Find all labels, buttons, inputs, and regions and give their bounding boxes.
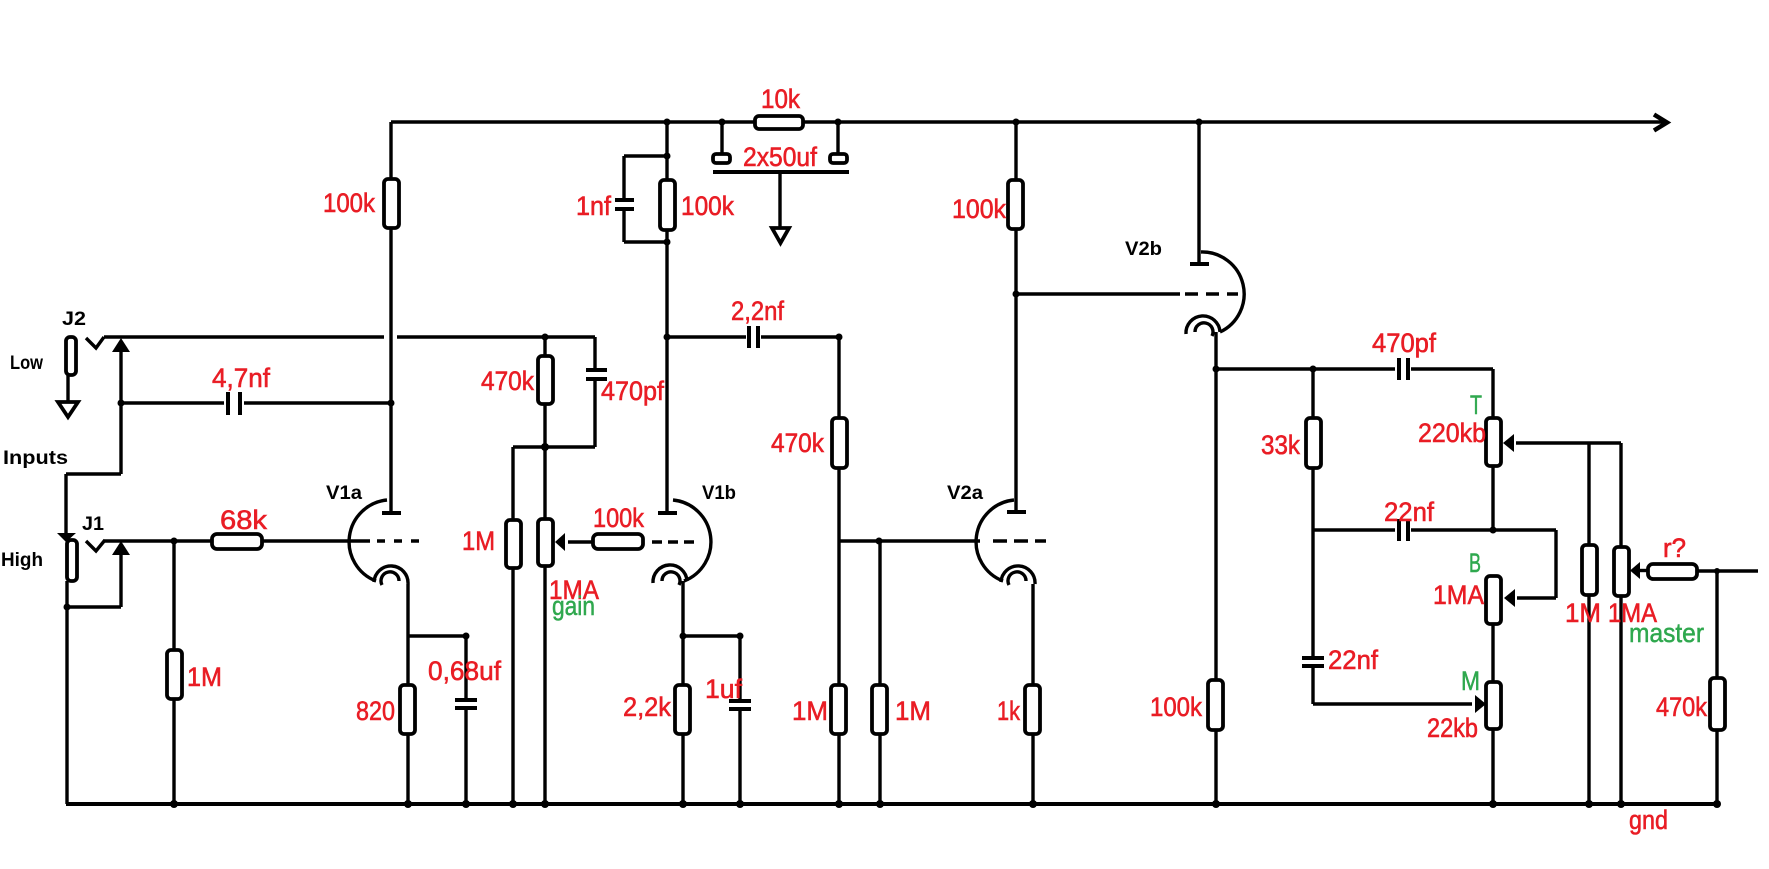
svg-text:V1a: V1a — [326, 483, 362, 504]
capacitor 470pf (treble) — [1313, 328, 1493, 418]
svg-text:master: master — [1629, 618, 1704, 648]
resistor r? (output series) — [1648, 533, 1758, 579]
resistor 100k (V1b grid stopper) — [593, 503, 695, 549]
svg-text:1M: 1M — [462, 526, 495, 556]
capacitor 470pf (bright cap) — [513, 337, 664, 447]
ground arrow of 2x50uf — [772, 174, 789, 243]
capacitor 2x50uf (filter) — [713, 119, 849, 173]
treble wiper arrow — [1503, 434, 1621, 452]
svg-text:22nf: 22nf — [1384, 497, 1434, 527]
ground bus — [66, 804, 1717, 835]
wire: Low input line — [104, 335, 595, 338]
resistor 470k (output load) — [1656, 571, 1725, 804]
mid wiper arrow — [1475, 695, 1486, 713]
svg-text:470k: 470k — [771, 428, 824, 458]
resistor 1M (input grid leak) — [167, 541, 222, 804]
potentiometer 1MA gain — [538, 447, 599, 804]
wire: V2b cathode node — [1213, 332, 1317, 680]
resistor 1M (mix b) — [872, 541, 931, 804]
resistor 100k (V1a plate) — [323, 122, 399, 511]
node: gain pot top junction — [541, 443, 549, 451]
bass wiper arrow — [1504, 589, 1515, 607]
svg-text:Low: Low — [10, 353, 43, 374]
svg-text:4,7nf: 4,7nf — [212, 363, 270, 393]
svg-text:0,68uf: 0,68uf — [428, 656, 501, 686]
svg-text:M: M — [1461, 666, 1480, 696]
J2 switch contact arrow — [112, 338, 130, 403]
svg-text:470pf: 470pf — [601, 376, 664, 406]
wire: V2a grid line — [839, 538, 1046, 545]
svg-text:22kb: 22kb — [1427, 713, 1478, 743]
triode V2b — [1125, 119, 1244, 337]
J1 switch contact arrow — [112, 541, 130, 607]
svg-text:100k: 100k — [323, 188, 375, 218]
svg-text:470k: 470k — [1656, 692, 1707, 722]
svg-text:r?: r? — [1663, 533, 1686, 563]
potentiometer 1MA master — [1608, 443, 1704, 804]
capacitor 1uf — [705, 636, 751, 804]
svg-text:1M: 1M — [187, 662, 222, 692]
resistor 10k (supply dropper) — [755, 84, 803, 129]
ground junction dots — [170, 800, 1721, 808]
svg-text:470pf: 470pf — [1372, 328, 1436, 358]
svg-text:J2: J2 — [62, 309, 86, 330]
wire: High input line — [104, 538, 211, 545]
triode V1a — [326, 483, 420, 585]
resistor 100k (V2a plate) — [952, 119, 1023, 511]
wire: bass wiper loop — [1517, 530, 1556, 598]
resistor 820 (V1a cathode) — [356, 685, 415, 804]
resistor 1k (V2a cathode) — [997, 685, 1040, 804]
svg-text:2,2k: 2,2k — [623, 692, 671, 722]
svg-text:33k: 33k — [1261, 430, 1300, 460]
capacitor 22nf (bass upper) — [1313, 497, 1556, 541]
svg-text:470k: 470k — [481, 366, 534, 396]
potentiometer 220kb treble — [1418, 390, 1501, 530]
wire: V2b grid (direct coupled) — [1013, 291, 1239, 298]
resistor 470k (gain coupling) — [481, 334, 553, 448]
resistor 2,2k (V1b cathode) — [623, 685, 690, 804]
svg-text:gain: gain — [552, 591, 595, 621]
svg-text:220kb: 220kb — [1418, 418, 1486, 448]
svg-text:1M: 1M — [1565, 598, 1601, 628]
svg-text:820: 820 — [356, 696, 395, 726]
svg-text:1M: 1M — [895, 696, 931, 726]
wire: V2a cathode — [1031, 584, 1034, 685]
svg-text:1k: 1k — [997, 696, 1020, 726]
resistor 100k (V1b plate) — [660, 119, 734, 512]
resistor 470k (V1b to V2a) — [771, 337, 847, 541]
svg-text:68k: 68k — [220, 505, 268, 535]
wire: V1b cathode — [680, 581, 744, 685]
resistor 1M (beside gain pot) — [462, 447, 521, 804]
svg-text:100k: 100k — [1150, 692, 1202, 722]
svg-text:gnd: gnd — [1629, 805, 1668, 835]
svg-text:T: T — [1470, 390, 1482, 420]
jack J2 (Low input) — [10, 309, 104, 417]
svg-text:2,2nf: 2,2nf — [731, 296, 784, 326]
triode V1b — [653, 483, 736, 585]
triode V2a — [947, 483, 1035, 585]
svg-text:2x50uf: 2x50uf — [743, 142, 817, 172]
svg-text:Inputs: Inputs — [3, 448, 68, 469]
svg-text:100k: 100k — [681, 191, 734, 221]
svg-text:1M: 1M — [792, 696, 828, 726]
wire: B+ supply bus — [391, 115, 1667, 131]
potentiometer 22kb mid — [1427, 666, 1501, 804]
capacitor 2,2nf (coupling) — [664, 296, 843, 348]
wire: inputs link J2 to J1 — [3, 403, 121, 533]
resistor 33k (tone slope) — [1261, 369, 1321, 657]
capacitor 0,68uf — [428, 636, 501, 804]
svg-text:V2a: V2a — [947, 483, 983, 504]
svg-text:B: B — [1469, 548, 1481, 578]
capacitor 1nf (plate bypass) — [576, 153, 671, 246]
gain pot wiper arrow — [555, 533, 592, 551]
svg-text:1uf: 1uf — [705, 674, 742, 704]
svg-text:J1: J1 — [82, 514, 104, 535]
wire: J1 sleeve to ground — [64, 581, 122, 804]
svg-text:1MA: 1MA — [1433, 580, 1484, 610]
resistor 68k — [212, 505, 370, 549]
capacitor 22nf (bass lower) — [1302, 645, 1472, 704]
potentiometer 1MA bass — [1433, 548, 1501, 682]
svg-text:1nf: 1nf — [576, 191, 611, 221]
svg-text:V1b: V1b — [702, 483, 736, 504]
jack J1 (High input) — [1, 514, 105, 581]
svg-text:V2b: V2b — [1125, 239, 1162, 260]
svg-text:High: High — [1, 550, 43, 571]
master wiper arrow — [1630, 562, 1650, 579]
wire: V1a cathode — [408, 584, 470, 685]
svg-text:100k: 100k — [593, 503, 644, 533]
resistor 1M (master grid ref) — [1565, 443, 1601, 804]
resistor 100k (V2b cathode) — [1150, 680, 1223, 804]
svg-text:22nf: 22nf — [1328, 645, 1378, 675]
capacitor 4,7nf — [118, 363, 395, 415]
svg-text:100k: 100k — [952, 194, 1006, 224]
svg-text:10k: 10k — [761, 84, 800, 114]
resistor 1M (mix a) — [792, 541, 846, 804]
